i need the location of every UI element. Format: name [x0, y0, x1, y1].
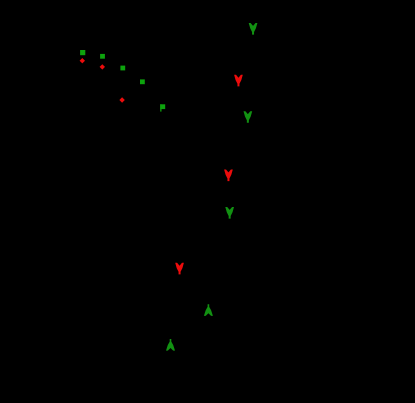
green square marker S1: [80, 50, 85, 55]
green square marker S2: [100, 54, 105, 59]
green up-arrow signal A7: [204, 304, 213, 316]
green down-arrow signal A1: [249, 23, 258, 35]
green down-arrow signal A5: [225, 207, 234, 219]
green square marker S3: [120, 66, 125, 71]
red down-arrow signal A2: [234, 75, 243, 87]
green flag marker S5: [160, 104, 165, 111]
green down-arrow signal A3: [244, 111, 253, 123]
red diamond marker D3: [119, 97, 124, 102]
green up-arrow signal A8: [166, 339, 175, 351]
red down-arrow signal A4: [224, 170, 233, 182]
red diamond marker D1: [80, 58, 85, 63]
red down-arrow signal A6: [175, 263, 184, 275]
red diamond marker D2: [100, 64, 105, 69]
green square marker S4: [140, 79, 145, 84]
